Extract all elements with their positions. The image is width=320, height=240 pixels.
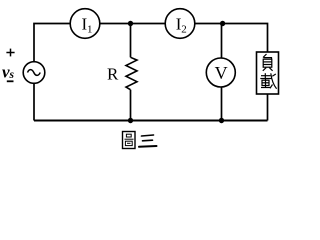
- wire bottom (bottom-left corner to bottom-right corner): [34, 120, 268, 122]
- wire left top segment (source top to corner to I1 left): [34, 24, 70, 62]
- wire left bottom segment (source bottom to bottom-left corner): [33, 83, 35, 120]
- wire voltmeter branch top (node B down to V meter): [221, 24, 223, 59]
- svg-text:1: 1: [87, 24, 93, 36]
- wire load bottom segment (load box bottom down to corner): [267, 94, 269, 121]
- wire top middle (I1 right to I2 left through node A): [100, 23, 165, 25]
- node B junction dot: [220, 21, 225, 26]
- load box: [257, 52, 279, 94]
- voltmeter V: [206, 58, 235, 87]
- label + (source polarity): [6, 49, 14, 57]
- node C junction dot (resistor bottom): [128, 118, 133, 123]
- node D junction dot (voltmeter bottom): [219, 118, 224, 123]
- wire resistor branch top (node A down to resistor): [130, 24, 132, 58]
- ammeter I1: [70, 9, 100, 39]
- caption glyph 三: [139, 135, 157, 147]
- svg-text:2: 2: [181, 24, 187, 36]
- label - (source polarity): [7, 80, 14, 82]
- wire voltmeter branch bottom (V meter to bottom wire): [221, 87, 223, 121]
- caption glyph 圖: [123, 132, 136, 149]
- node A junction dot: [128, 21, 133, 26]
- svg-text:V: V: [215, 63, 228, 83]
- ammeter I2: [165, 9, 195, 39]
- wire resistor branch bottom (resistor to bottom wire): [130, 90, 132, 121]
- load label glyph 負: [263, 54, 273, 71]
- ac source vs: [23, 62, 45, 84]
- load label glyph 載: [260, 73, 276, 89]
- resistor R: [126, 57, 137, 89]
- svg-text:R: R: [107, 65, 119, 84]
- wire top right (I2 right to node B to load corner down to load box top): [195, 24, 268, 53]
